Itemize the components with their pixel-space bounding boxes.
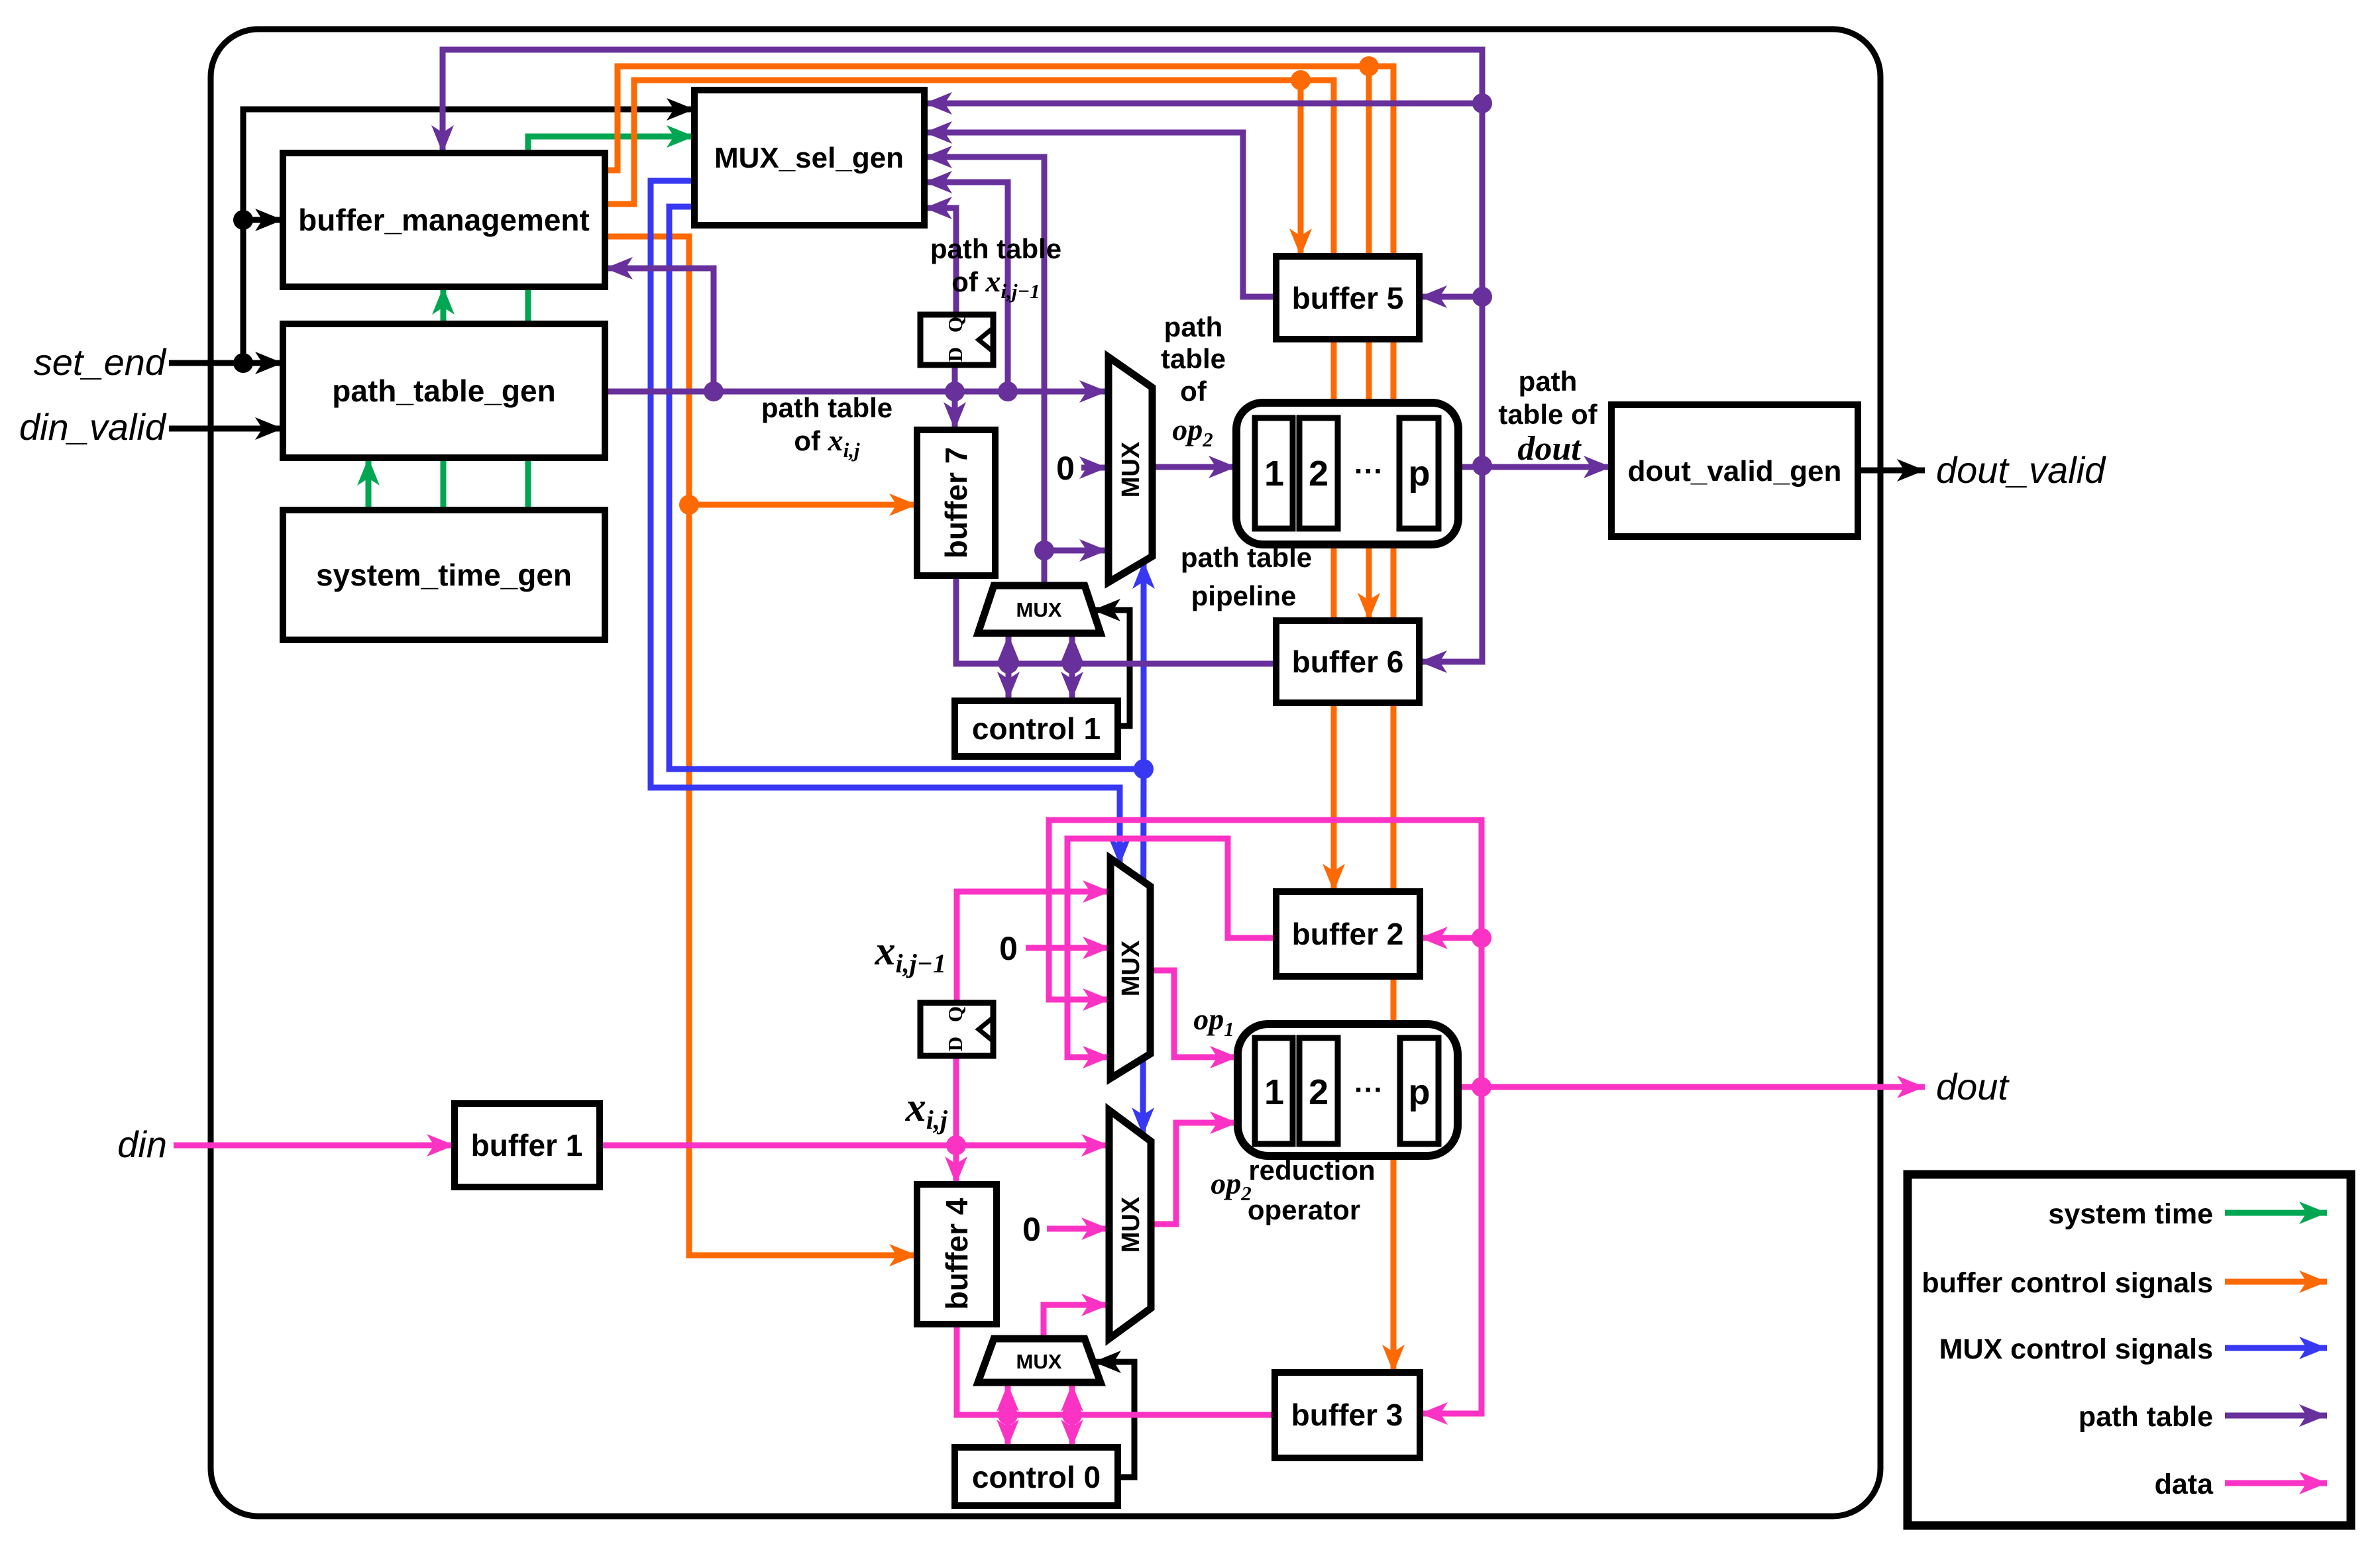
wire zero input to lower MUX (magenta) [1047, 1226, 1109, 1232]
block path_table_gen [283, 324, 605, 458]
flip-flop U1 (path table delay) [920, 315, 993, 365]
wire x_i,j-1 flip-flop Q to middle MUX input 1 (magenta) [957, 892, 1110, 1003]
svg-text:p: p [1409, 1072, 1431, 1112]
wire branch to MUX_sel_gen input 4 (purple) [924, 182, 1008, 391]
svg-text:din: din [117, 1123, 167, 1165]
wire din input (magenta) [174, 1143, 455, 1149]
wire path table of dout down to buffer 6 right (purple) [1419, 466, 1482, 662]
svg-text:0: 0 [1056, 450, 1075, 487]
svg-text:of xi,j−1: of xi,j−1 [951, 264, 1040, 303]
svg-text:1: 1 [1264, 1072, 1284, 1112]
svg-text:xi,j: xi,j [905, 1085, 948, 1135]
wire buffer control B: buffer_management to buffer 2 (orange) [605, 80, 1334, 892]
junction dot blue [1134, 759, 1154, 779]
reduction operator box [1238, 1024, 1458, 1156]
wire MUX control to middle MUX select (blue) [651, 181, 1120, 865]
wire control MUX 1 output to MUX_sel_gen input 3 (purple) [924, 157, 1044, 586]
svg-text:system time: system time [2048, 1198, 2213, 1230]
wire buffer control C: buffer_management to buffer 4 (orange) [605, 236, 917, 1255]
svg-text:of: of [1180, 376, 1207, 407]
svg-text:MUX: MUX [1117, 441, 1145, 497]
wire buffer control C branch to buffer 7 (orange) [689, 502, 917, 508]
wire bidirectional control MUX 0 left (magenta) [1005, 1384, 1011, 1447]
wire din_valid (black) [169, 426, 283, 432]
wire system time to buffer_management (green) [441, 287, 447, 510]
wire flip-flop Q to MUX_sel_gen input 5 (purple) [924, 208, 956, 315]
wire control 0 select (black) [1093, 1362, 1134, 1477]
svg-text:2: 2 [1309, 454, 1328, 493]
wire zero input to upper MUX (purple) [1081, 465, 1107, 471]
wire system time to path_table_gen (green) [366, 458, 372, 510]
svg-text:2: 2 [1309, 1072, 1328, 1112]
wire op2 lower MUX output to reduction operator (magenta) [1151, 1123, 1238, 1224]
block buffer 6 [1276, 621, 1419, 703]
wire upper MUX output to path table pipeline (purple) [1152, 464, 1236, 470]
block buffer 5 [1276, 256, 1419, 339]
outer system boundary [211, 29, 1880, 1516]
svg-text:buffer 4: buffer 4 [940, 1198, 974, 1310]
svg-text:data: data [2155, 1469, 2214, 1500]
junction dots purple [704, 93, 1492, 674]
svg-text:op2: op2 [1172, 413, 1213, 451]
wire path table of x_i,j main (purple) [605, 389, 1107, 395]
block MUX_sel_gen [694, 90, 924, 225]
block buffer 7 [917, 430, 995, 576]
flip-flop U0 (data delay) [920, 1003, 993, 1056]
wire branch to MUX_sel_gen input 1 (purple) [924, 101, 1482, 107]
wire buffer 5 output to MUX_sel_gen input 2 (purple) [924, 132, 1276, 297]
wire MUX control to upper and lower MUX selects (blue) [669, 207, 1144, 769]
MUX lower (op2 select) [1109, 1110, 1151, 1339]
svg-text:dout: dout [1517, 430, 1582, 468]
wire x_i,j data buffer 1 to lower MUX (magenta) [600, 1143, 1109, 1149]
svg-text:D: D [944, 347, 967, 362]
wire branch to buffer 5 right (purple) [1419, 294, 1482, 300]
block control 0 [955, 1447, 1118, 1506]
svg-text:dout_valid: dout_valid [1936, 449, 2106, 491]
wire branch to buffer 7 top (purple) [952, 391, 958, 430]
MUX middle (op1 select) [1110, 858, 1150, 1078]
svg-text:0: 0 [1022, 1211, 1041, 1248]
block buffer_management [283, 153, 605, 287]
wire path table of dout to dout_valid_gen (purple) [1457, 464, 1611, 470]
svg-text:buffer 1: buffer 1 [471, 1128, 583, 1162]
legend box [1908, 1174, 2351, 1525]
svg-text:xi,j−1: xi,j−1 [875, 929, 946, 978]
junction dots orange [679, 56, 1379, 515]
svg-text:dout: dout [1936, 1066, 2010, 1108]
wire bidirectional control MUX 1 right (purple) [1069, 635, 1075, 699]
wire branch to upper MUX input 3 (purple) [1044, 548, 1107, 554]
svg-text:buffer 3: buffer 3 [1291, 1398, 1403, 1432]
block buffer 1 [455, 1104, 600, 1187]
block buffer 3 [1275, 1372, 1420, 1458]
wire buffer control A: buffer_management to buffer 3 (orange) [605, 66, 1393, 1372]
wire set_end net (black) [169, 109, 694, 363]
wire system time to MUX_sel_gen (green) [528, 136, 694, 510]
wire buffer control B branch to buffer 5 (orange) [1298, 80, 1304, 256]
block system_time_gen [283, 510, 605, 640]
svg-text:buffer_management: buffer_management [298, 203, 590, 237]
svg-text:op1: op1 [1193, 1002, 1234, 1041]
block control 1 [955, 701, 1118, 756]
block dout_valid_gen [1611, 405, 1858, 537]
svg-text:reduction: reduction [1248, 1155, 1375, 1186]
wire buffer 2 output to middle MUX input 4 (magenta) [1067, 839, 1276, 1057]
wire branch down to buffer 4 top (magenta) [953, 1145, 959, 1184]
MUX upper (path table select) [1109, 357, 1152, 582]
svg-text:path: path [1164, 311, 1223, 342]
svg-text:set_end: set_end [34, 341, 167, 383]
svg-text:MUX: MUX [1117, 940, 1145, 996]
svg-text:din_valid: din_valid [19, 406, 167, 448]
wire bidirectional control MUX 1 left (purple) [1006, 635, 1012, 699]
svg-text:buffer 7: buffer 7 [939, 447, 973, 559]
svg-text:control 1: control 1 [972, 711, 1101, 746]
svg-text:buffer 6: buffer 6 [1292, 645, 1404, 679]
MUX control 0 small [978, 1339, 1101, 1382]
svg-text:···: ··· [1354, 455, 1383, 488]
block buffer 4 [917, 1184, 997, 1324]
svg-text:table of: table of [1498, 399, 1597, 430]
svg-text:pipeline: pipeline [1191, 580, 1297, 611]
svg-text:MUX: MUX [1016, 1350, 1062, 1373]
MUX control 1 small [978, 586, 1101, 633]
svg-text:buffer 5: buffer 5 [1292, 281, 1404, 315]
svg-text:MUX: MUX [1016, 598, 1062, 621]
svg-text:path table: path table [930, 233, 1061, 264]
svg-text:dout_valid_gen: dout_valid_gen [1628, 455, 1842, 488]
svg-text:buffer control signals: buffer control signals [1921, 1267, 2213, 1299]
svg-text:system_time_gen: system_time_gen [316, 558, 572, 592]
svg-text:MUX control signals: MUX control signals [1939, 1333, 2213, 1365]
svg-text:path table: path table [2079, 1401, 2213, 1433]
svg-text:of xi,j: of xi,j [794, 423, 860, 462]
wire control 1 select (black) [1093, 610, 1130, 726]
svg-text:path: path [1519, 366, 1578, 397]
path table pipeline box [1236, 403, 1458, 544]
svg-text:op2: op2 [1211, 1166, 1252, 1205]
svg-text:D: D [944, 1037, 967, 1051]
wire buffer control A branch to buffer 6 (orange) [1366, 66, 1372, 621]
wire dout feedback up to middle MUX input 3 (magenta) [1049, 820, 1482, 1087]
svg-text:Q: Q [944, 1006, 967, 1022]
svg-text:0: 0 [999, 930, 1018, 967]
svg-text:1: 1 [1264, 454, 1284, 493]
junction dots magenta [946, 928, 1491, 1425]
wire zero input to middle MUX (magenta) [1026, 945, 1110, 951]
svg-text:p: p [1409, 454, 1431, 493]
svg-text:operator: operator [1248, 1194, 1360, 1225]
junction dots black [233, 210, 253, 373]
svg-text:path_table_gen: path_table_gen [332, 374, 555, 408]
wire dout_valid output (black) [1858, 468, 1925, 474]
svg-text:path table: path table [761, 392, 892, 423]
wire path table of dout up to buffer_management top (purple) [443, 50, 1482, 466]
svg-text:···: ··· [1354, 1074, 1383, 1106]
wire blue vertical down to lower MUX [1143, 769, 1144, 1135]
svg-text:buffer 2: buffer 2 [1292, 917, 1404, 951]
wire control MUX 0 output to lower MUX input 3 (magenta) [1044, 1305, 1109, 1339]
wire dout feedback down to buffer 3 right (magenta) [1420, 1087, 1482, 1414]
wire branch to buffer_management right (purple) [605, 268, 714, 391]
svg-text:control 0: control 0 [972, 1460, 1101, 1494]
wire path table bus buffer7 to buffer6 (purple) [956, 576, 1276, 664]
wire blue vertical up to upper MUX [1141, 561, 1147, 769]
svg-text:MUX: MUX [1117, 1196, 1145, 1253]
wire branch to buffer 2 right (magenta) [1420, 935, 1482, 941]
svg-text:table: table [1161, 343, 1226, 374]
svg-text:path table: path table [1181, 542, 1312, 573]
wire data bus buffer 4 to buffer 3 (magenta) [957, 1324, 1275, 1415]
svg-text:MUX_sel_gen: MUX_sel_gen [714, 142, 904, 174]
wire op1 middle MUX output to reduction operator (magenta) [1150, 970, 1238, 1057]
svg-text:Q: Q [944, 317, 967, 333]
wire bidirectional control MUX 0 right (magenta) [1069, 1384, 1075, 1447]
wire dout data output (magenta) [1458, 1084, 1925, 1090]
wire branch to flip-flop D input (purple) [952, 365, 958, 391]
wire branch up to flip-flop D (magenta) [953, 1056, 959, 1145]
block buffer 2 [1276, 892, 1420, 976]
